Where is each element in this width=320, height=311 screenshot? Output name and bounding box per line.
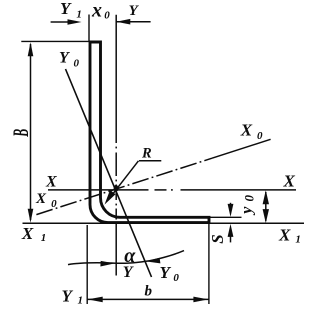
svg-text:X: X <box>45 174 57 191</box>
svg-text:Y: Y <box>62 286 74 305</box>
svg-text:X: X <box>240 121 253 140</box>
svg-text:X: X <box>21 224 34 243</box>
svg-text:B: B <box>8 129 33 138</box>
svg-text:Y: Y <box>59 50 70 67</box>
axis Y (vertical centroid axis, dash-dot) <box>115 15 117 276</box>
angle profile outline <box>90 42 209 223</box>
dimension x0: left tick <box>88 15 90 43</box>
svg-text:X: X <box>35 191 47 207</box>
svg-text:1: 1 <box>295 234 301 246</box>
svg-text:S: S <box>208 234 227 243</box>
svg-text:b: b <box>145 284 153 300</box>
dimension B: dimension line with arrows <box>30 44 32 220</box>
svg-text:Y: Y <box>160 263 172 282</box>
dimension y0: line with arrows <box>265 192 267 221</box>
svg-text:α: α <box>124 245 136 267</box>
svg-text:0: 0 <box>173 272 179 284</box>
axis X1 (along bottom face) <box>23 222 305 224</box>
svg-text:0: 0 <box>104 9 110 21</box>
angle alpha arc with arrows <box>68 251 184 265</box>
svg-text:1: 1 <box>41 232 47 244</box>
dimension B: top extension line <box>21 40 90 42</box>
svg-text:0: 0 <box>257 130 263 142</box>
dimension S: upper arrow <box>230 203 232 210</box>
svg-text:Y: Y <box>60 0 72 18</box>
svg-text:X: X <box>278 226 291 245</box>
svg-text:1: 1 <box>76 9 82 21</box>
centroid node <box>114 185 119 192</box>
svg-text:y: y <box>239 206 256 216</box>
dimension x0: left arrow line <box>51 21 72 23</box>
svg-text:1: 1 <box>78 294 84 306</box>
svg-text:X: X <box>283 172 296 191</box>
svg-text:Y: Y <box>129 3 140 19</box>
dimension x0: right arrow line <box>117 21 151 23</box>
svg-text:0: 0 <box>51 198 57 210</box>
svg-text:0: 0 <box>242 195 257 202</box>
svg-text:x: x <box>91 0 102 21</box>
svg-text:0: 0 <box>74 57 80 69</box>
dimension b: right extension line <box>208 224 210 305</box>
axis Y0 (principal axis, diagonal) <box>66 69 152 277</box>
axis X0 (principal axis, dash-dot diagonal) <box>36 158 212 214</box>
dimension S: lower arrow <box>230 236 232 242</box>
dimension b: line with arrows <box>87 298 209 300</box>
svg-text:R: R <box>141 145 152 161</box>
dimension b: left extension line <box>86 225 88 304</box>
dimension S: extension line <box>209 216 242 218</box>
axis X (horizontal centroid axis) <box>48 189 296 191</box>
